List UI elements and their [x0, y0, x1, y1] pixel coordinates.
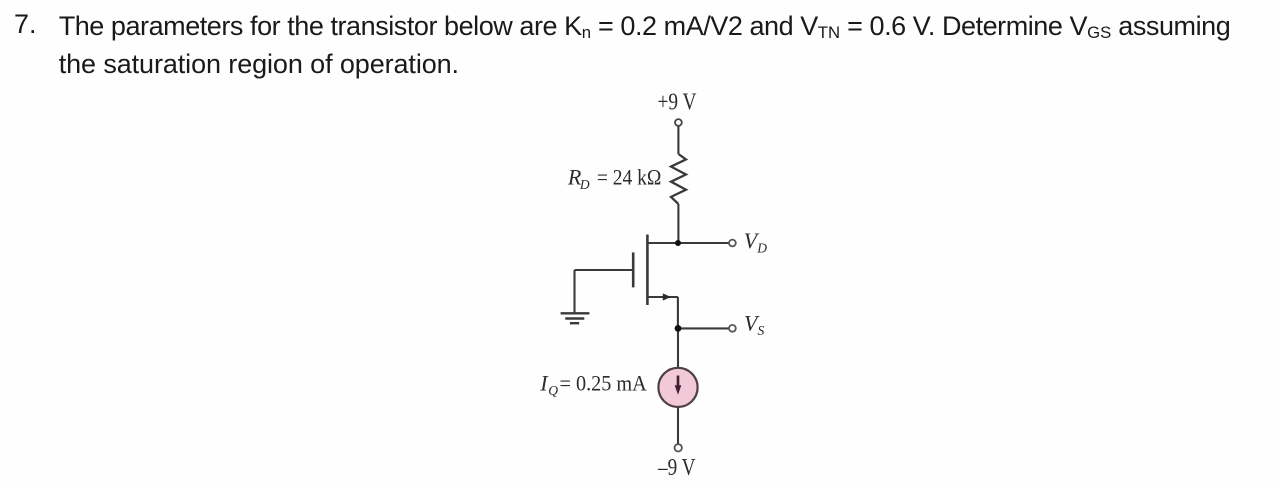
svg-text:= 0.25 mA: = 0.25 mA	[560, 370, 647, 395]
svg-text:= 24 kΩ: = 24 kΩ	[597, 164, 662, 189]
svg-text:Q: Q	[548, 383, 558, 398]
svg-text:–9 V: –9 V	[657, 455, 696, 481]
svg-text:VD: VD	[744, 228, 767, 256]
svg-text:D: D	[579, 177, 590, 192]
svg-text:+9 V: +9 V	[658, 90, 698, 116]
svg-text:VS: VS	[744, 310, 764, 338]
